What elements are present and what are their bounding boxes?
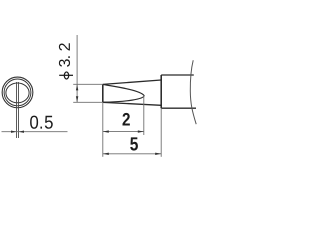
arrow left end dim 5	[103, 153, 109, 155]
dimension line 5	[103, 153, 161, 155]
phi3.2 top extension line	[73, 83, 103, 85]
arrow pointing right at left edge line	[11, 131, 17, 133]
extension line below lens vertex (dim 2 right)	[143, 95, 145, 135]
front view inner ring circle	[4, 79, 31, 106]
extension line below tip edge (dims 2,5)	[102, 102, 104, 157]
label 2	[122, 113, 129, 126]
front view outer circle (tip cylinder)	[2, 77, 33, 108]
label phi3.2 rotated: digits 3.2	[59, 43, 70, 66]
extension line below shaft step (dim 5 right)	[160, 108, 162, 157]
label 0.5	[30, 116, 53, 129]
front view ground-face ellipse	[6, 83, 29, 103]
dimension line 0.5	[2, 131, 68, 133]
phi3.2 dimension line vertical	[76, 35, 78, 102]
side view tip edge (left vertical)	[102, 84, 104, 102]
shaft bottom line	[161, 107, 196, 109]
shaft break curve	[190, 60, 196, 124]
shaft top line	[161, 74, 194, 76]
dimension line 2	[103, 131, 144, 133]
side view top taper line	[103, 80, 161, 84]
side view bottom taper line	[103, 102, 161, 105]
label 5	[130, 137, 138, 150]
chisel edge right line (front view) + extension	[18, 82, 20, 138]
arrow pointing up at top extension	[76, 84, 78, 90]
arrow left end dim 2	[103, 130, 109, 132]
arrow right end dim 2	[138, 130, 144, 132]
shaft step vertical line	[160, 75, 162, 108]
arrow pointing down at bottom extension	[76, 96, 78, 102]
phi3.2 bottom extension line	[73, 101, 103, 103]
chisel edge left line (front view) + extension	[16, 82, 18, 138]
arrow right end dim 5	[155, 153, 161, 155]
label phi symbol (drawn)	[59, 72, 73, 79]
ground face lens curve	[103, 84, 144, 102]
arrow pointing left at right edge line	[19, 131, 25, 133]
